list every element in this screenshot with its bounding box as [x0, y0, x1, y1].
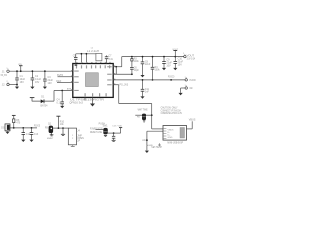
- ground right: [179, 93, 183, 96]
- node junction: [115, 66, 117, 68]
- capacitor C3: [43, 71, 53, 85]
- power flag LED rail: [12, 115, 16, 119]
- connector J4: [68, 128, 84, 146]
- svg-text:NET-TIE 2P: NET-TIE 2P: [151, 147, 162, 149]
- svg-text:10pF: 10pF: [134, 70, 140, 72]
- diode D1: [41, 97, 49, 108]
- capacitor C4: [57, 90, 65, 106]
- capacitor C7 bst: [105, 55, 114, 63]
- wire VOS link: [115, 67, 117, 75]
- bootstrap cap C5: [73, 54, 78, 64]
- svg-text:100k: 100k: [155, 70, 161, 72]
- svg-text:OPEN: OPEN: [77, 138, 84, 140]
- svg-text:DS1: DS1: [1, 127, 6, 129]
- wire SW stubs to IC: [80, 54, 82, 64]
- pin labels inside IC: [74, 64, 112, 96]
- junction dots input rail: [16, 70, 18, 72]
- svg-text:PGOOD: PGOOD: [168, 77, 175, 79]
- svg-text:WAIT TIME: WAIT TIME: [138, 108, 148, 111]
- connector J2 mini-USB: [158, 126, 187, 147]
- svg-text:MINI-USB-B-5P: MINI-USB-B-5P: [167, 142, 183, 145]
- svg-text:SW1: SW1: [103, 126, 109, 128]
- wire down left: [53, 91, 55, 102]
- svg-text:PGOOD: PGOOD: [34, 126, 40, 128]
- svg-text:100k: 100k: [134, 61, 140, 63]
- wire SW pin right: [113, 66, 122, 68]
- svg-text:AG: AG: [142, 139, 146, 142]
- capacitor C14 gnd: [61, 127, 65, 135]
- ground under C8: [140, 75, 144, 77]
- power flag VOUT: [172, 49, 179, 57]
- svg-text:RESET LINE: RESET LINE: [90, 132, 102, 134]
- connector J1 pin 2 circle: [2, 81, 9, 86]
- svg-text:2P: 2P: [77, 141, 80, 143]
- ground under C3: [43, 85, 47, 89]
- svg-text:MMBT: MMBT: [47, 138, 54, 140]
- svg-text:16V: 16V: [20, 81, 25, 84]
- connector J3 VOUT circle: [183, 53, 196, 60]
- capacitor C15: [112, 125, 117, 141]
- svg-text:VOUT: VOUT: [172, 49, 179, 51]
- svg-text:16V: 16V: [35, 81, 40, 84]
- ground under C1: [15, 85, 19, 90]
- svg-text:10V: 10V: [48, 82, 53, 85]
- svg-text:3.3V 0.5A: 3.3V 0.5A: [187, 57, 196, 60]
- pin numbers outside: [71, 62, 115, 90]
- connector PGOOD circle: [185, 77, 196, 82]
- ground under C8b: [140, 79, 149, 99]
- ground under C9: [162, 68, 166, 70]
- node VBUS: [187, 119, 196, 129]
- capacitor C1: [15, 71, 25, 84]
- svg-text:COMMUNICATION 1.8V: COMMUNICATION 1.8V: [161, 112, 183, 115]
- ground under C4: [60, 106, 64, 108]
- note text block: [161, 106, 183, 115]
- wire PG net: [113, 84, 119, 86]
- capacitor C10: [174, 57, 184, 68]
- svg-text:1nF: 1nF: [145, 92, 150, 94]
- svg-text:L1 2.2uH: L1 2.2uH: [87, 50, 99, 53]
- svg-text:J2: J2: [2, 83, 5, 87]
- resistor R3 feedback top: [131, 57, 140, 67]
- ground under DS1: [5, 131, 9, 134]
- wire output rail: [122, 56, 184, 58]
- transistor Q2: [90, 123, 108, 136]
- U1 thermal pad: [86, 73, 99, 87]
- connector J1 pin circle: [1, 68, 10, 77]
- wire PGOOD: [113, 79, 185, 81]
- ground under C2: [30, 85, 34, 89]
- ground under C10: [173, 68, 177, 70]
- svg-text:GND: GND: [189, 87, 192, 90]
- svg-text:C13: C13: [34, 134, 39, 136]
- pin stub FSW: [56, 81, 73, 83]
- svg-text:PG_3V3: PG_3V3: [120, 85, 129, 87]
- op-amp U1 IC body: [73, 64, 113, 98]
- svg-text:PGOOD: PGOOD: [189, 79, 195, 82]
- svg-text:DEF: DEF: [56, 81, 62, 83]
- svg-text:10V: 10V: [166, 65, 171, 68]
- wire input rail: [9, 70, 73, 72]
- svg-text:0.1u: 0.1u: [57, 101, 62, 104]
- svg-text:C11: C11: [145, 89, 150, 91]
- svg-text:VIN_5V0: VIN_5V0: [1, 74, 8, 77]
- wire gnd connector: [181, 87, 185, 89]
- svg-text:22uF: 22uF: [145, 64, 151, 66]
- inductor L1: [87, 48, 102, 61]
- svg-text:BAT54: BAT54: [41, 105, 49, 108]
- capacitor C6: [130, 67, 139, 74]
- LED DS1: [1, 124, 10, 131]
- transistor Q3: [135, 108, 151, 122]
- ground IC: [90, 97, 95, 106]
- svg-text:VBUS: VBUS: [189, 119, 196, 122]
- wire LED node: [10, 127, 37, 129]
- svg-text:VDD: VDD: [118, 125, 123, 127]
- IC pin stubs bottom: [84, 97, 86, 100]
- wire Q2 right: [108, 132, 121, 134]
- power flag VIN: [18, 64, 23, 71]
- svg-text:GND: GND: [168, 137, 173, 139]
- svg-text:10V: 10V: [178, 64, 183, 67]
- svg-text:3.3n: 3.3n: [109, 59, 114, 61]
- power flag Q2: [118, 125, 123, 133]
- capacitor C9: [162, 57, 172, 68]
- pin stub TRACK: [57, 75, 73, 77]
- resistor R8: [13, 119, 21, 128]
- wire AVIN pin: [54, 90, 73, 92]
- svg-text:SS/TR: SS/TR: [57, 75, 64, 77]
- connector GND circle: [185, 85, 193, 90]
- svg-text:JMP: JMP: [77, 135, 82, 137]
- power flag left: [30, 98, 35, 102]
- wire SW top: [76, 53, 96, 55]
- svg-text:QFN16 3x3: QFN16 3x3: [69, 101, 83, 105]
- capacitor C13: [29, 127, 38, 142]
- wire USB gnd branch: [142, 131, 163, 150]
- svg-text:J1: J1: [2, 69, 5, 73]
- svg-text:AVIN: AVIN: [67, 87, 72, 90]
- transistor Q1: [45, 123, 54, 140]
- capacitor C2: [31, 71, 42, 85]
- ground USB: [145, 151, 149, 153]
- wire VOS pin: [113, 73, 132, 75]
- capacitor C12: [21, 127, 31, 142]
- svg-text:VIN: VIN: [18, 64, 22, 66]
- capacitor C8: [141, 57, 151, 75]
- resistor R4 divider: [151, 57, 161, 80]
- power flag Q1: [56, 116, 64, 129]
- wire gnd return: [9, 84, 17, 86]
- wire up to output rail: [121, 57, 123, 67]
- wire Q1 collector: [53, 127, 68, 129]
- connector pin ticks: [8, 54, 186, 87]
